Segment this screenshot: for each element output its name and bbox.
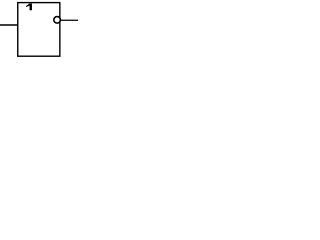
label: 1 (IEC function label) bbox=[26, 4, 32, 11]
wire: input net to U1 left pin bbox=[0, 24, 18, 26]
wire: output net bbox=[58, 19, 78, 21]
inversion bubble on U1 output bbox=[54, 17, 61, 24]
background bbox=[0, 0, 78, 59]
inverter U1 body (IEC box) bbox=[18, 3, 60, 57]
